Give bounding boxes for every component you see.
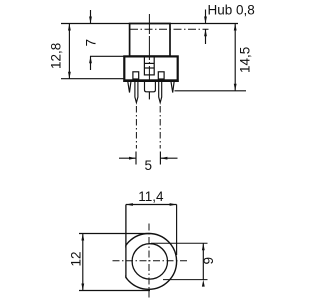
svg-text:7: 7 [83,39,98,47]
svg-text:9: 9 [201,257,216,265]
svg-text:12: 12 [69,251,84,266]
svg-text:Hub 0,8: Hub 0,8 [208,3,255,18]
svg-text:14,5: 14,5 [238,47,253,73]
svg-text:11,4: 11,4 [138,189,164,204]
svg-text:5: 5 [145,158,153,173]
svg-text:12,8: 12,8 [49,43,64,69]
